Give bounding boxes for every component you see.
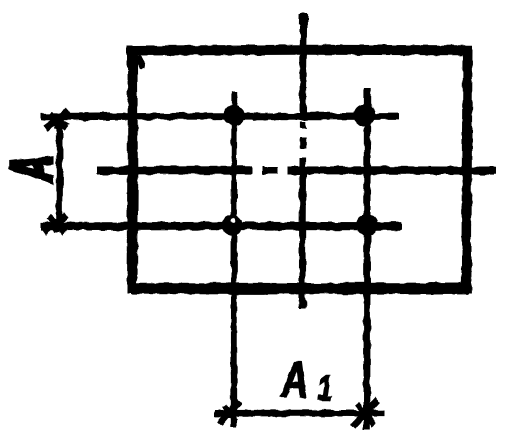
bottom holes axis line xyxy=(41,222,402,231)
dimension A1 left arrow fill xyxy=(222,404,236,419)
dimension A top arrow tick xyxy=(45,111,69,129)
hole top-left xyxy=(223,105,244,126)
hole bottom-right xyxy=(356,214,378,236)
svg-text:A: A xyxy=(280,353,308,408)
dimension A top arrow fill xyxy=(52,114,70,129)
hole bottom-left white notch xyxy=(231,218,236,223)
dimension A1 right arrow tick xyxy=(353,400,378,427)
dimension A1 left arrow tick 2 xyxy=(224,406,236,421)
dimension A1 right arrow tick 2 xyxy=(357,404,375,426)
horizontal centerline dash xyxy=(263,167,278,174)
outline bottom edge overlay xyxy=(131,283,468,295)
dimension A1 left arrow tick xyxy=(220,401,240,424)
horizontal centerline (right solid segment) xyxy=(288,166,496,175)
outline top-left corner blob xyxy=(138,56,143,68)
right holes vertical axis line xyxy=(363,88,370,429)
dimension A top arrow tick 2 xyxy=(50,113,67,128)
dimension A bottom arrow tick 2 xyxy=(48,217,65,233)
dimension A1 line xyxy=(215,410,384,417)
dimension A bottom arrow fill xyxy=(51,219,68,233)
horizontal centerline right end blob xyxy=(480,167,494,176)
plate outline rectangle xyxy=(132,50,468,289)
vertical centerline (lower solid segment) xyxy=(299,158,306,310)
vertical centerline top end thick blob xyxy=(299,14,308,25)
left holes vertical axis line xyxy=(231,91,237,427)
horizontal centerline (left solid segment) xyxy=(97,166,252,174)
svg-text:1: 1 xyxy=(317,368,333,408)
dimension A extension/dimension vertical line xyxy=(56,121,63,229)
top holes axis line xyxy=(41,113,399,120)
vertical centerline (top solid segment) xyxy=(300,13,308,120)
vertical centerline dash xyxy=(300,138,307,149)
svg-text:A: A xyxy=(1,155,65,183)
horizontal centerline left thick spot xyxy=(160,166,250,175)
hole top-right xyxy=(354,104,376,126)
vertical centerline bottom end blob xyxy=(298,300,306,308)
dimension A bottom arrow tick xyxy=(44,216,67,233)
vertical centerline dot xyxy=(300,122,306,128)
dimension A1 right arrow fill xyxy=(356,403,372,421)
hole bottom-left xyxy=(222,215,243,236)
top holes axis line thick spots xyxy=(84,112,330,120)
